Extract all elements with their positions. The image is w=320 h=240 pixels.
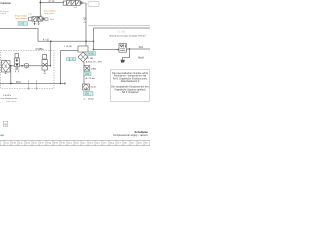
- wire vertical from V2: [85, 3, 87, 41]
- link box T3: [84, 72, 91, 76]
- svg-text:0.6 MPa: 0.6 MPa: [3, 95, 12, 97]
- junction: [129, 48, 131, 50]
- link box 1V2: [18, 22, 28, 26]
- wire drop from right rail: [94, 28, 120, 50]
- wire service unit: [10, 65, 24, 67]
- wire into unit: [85, 41, 87, 46]
- svg-text:20N4: 20N4: [91, 68, 97, 70]
- svg-text:( 1 V3 ): ( 1 V3 ): [118, 31, 126, 34]
- junction: [93, 41, 95, 43]
- note frame: [111, 70, 150, 102]
- svg-text:3/n2: 3/n2: [139, 47, 144, 49]
- annotation orange note 1: [0, 11, 9, 15]
- svg-text:3 / n2: 3 / n2: [84, 17, 86, 23]
- comment frame rounded: [88, 1, 99, 6]
- svg-text:20.4k: 20.4k: [91, 86, 97, 88]
- svg-text:4 ... 10 bar: 4 ... 10 bar: [84, 97, 95, 100]
- regulator: [15, 54, 20, 73]
- valve V1: [29, 17, 48, 26]
- svg-text:A-20x1.25 - 18.5: A-20x1.25 - 18.5: [86, 60, 103, 63]
- svg-text:1 V2: 1 V2: [19, 24, 24, 26]
- link box T4: [84, 92, 94, 96]
- wire top rail: [40, 2, 64, 4]
- junction: [50, 41, 52, 43]
- svg-text:1V3: 1V3: [85, 74, 90, 76]
- wire riser to generator: [61, 51, 79, 84]
- junction: [85, 41, 87, 43]
- silencer: [120, 60, 125, 63]
- svg-text:6 7f: 6 7f: [40, 142, 44, 144]
- svg-text:1 V 1B1: 1 V 1B1: [86, 58, 95, 60]
- svg-text:lang wartu: lang wartu: [44, 12, 55, 15]
- svg-text:13 d: 13 d: [89, 142, 93, 144]
- svg-text:2 / n2: 2 / n2: [49, 1, 55, 3]
- filter: [2, 61, 10, 74]
- svg-text:Teil 2: Ersatzteil: Teil 2: Ersatzteil: [122, 91, 139, 94]
- svg-text:Datenbankwerk 4: Datenbankwerk 4: [121, 80, 140, 83]
- vacuum gauge: [83, 84, 90, 90]
- svg-text:8 9h: 8 9h: [54, 142, 58, 144]
- svg-text:1V1B1: 1V1B1: [87, 54, 95, 56]
- svg-text:lang dauern: lang dauern: [15, 17, 27, 20]
- section divider line: [88, 25, 150, 27]
- svg-text:lang d: lang d: [0, 13, 7, 15]
- wire upper right rail: [94, 27, 151, 29]
- lubricator: [42, 54, 47, 73]
- wire spine: [83, 62, 85, 84]
- teal dash bottom left: [0, 135, 3, 137]
- svg-text:A - 20 bar: A - 20 bar: [86, 77, 96, 80]
- link boxes row: [67, 58, 76, 61]
- svg-text:2: 2: [41, 15, 42, 17]
- annotation orange note 3: [44, 10, 56, 16]
- svg-text:nach oben: nach oben: [6, 101, 17, 103]
- vacuum filter unit: [78, 46, 88, 62]
- svg-text:3 4c: 3 4c: [19, 142, 23, 144]
- svg-text:1B1: 1B1: [85, 94, 90, 96]
- svg-text:18 i: 18 i: [124, 142, 128, 144]
- svg-text:PNEUMONE: PNEUMONE: [0, 3, 11, 5]
- svg-text:17 h: 17 h: [117, 142, 121, 144]
- svg-text:7 8g: 7 8g: [47, 142, 51, 144]
- svg-text:Einschaltbar: Einschaltbar: [15, 14, 27, 17]
- left note text: [0, 95, 17, 103]
- wire filter down: [11, 66, 13, 84]
- svg-text:20 k: 20 k: [50, 19, 54, 21]
- svg-text:15 f: 15 f: [103, 142, 107, 144]
- gauge: [24, 63, 29, 68]
- wire riser: [49, 41, 51, 66]
- svg-text:Einschaltbar: Einschaltbar: [44, 10, 56, 13]
- vacuum generator VTM: [119, 44, 127, 53]
- wire left horizontal: [0, 29, 38, 42]
- check valve: [84, 66, 90, 71]
- junction corner dot: [93, 49, 95, 51]
- wire lubricator: [24, 65, 50, 67]
- annotation orange note 2: [15, 14, 28, 20]
- svg-text:16 g: 16 g: [110, 142, 114, 144]
- svg-text:Schaltplan: Schaltplan: [134, 130, 148, 134]
- wire right rail out: [127, 48, 151, 50]
- drain stub 2: [36, 80, 38, 90]
- junction: [10, 65, 12, 67]
- junction: [60, 83, 62, 85]
- wire bottom rail P0.6: [0, 83, 65, 85]
- svg-text:20 k: 20 k: [138, 142, 142, 144]
- title block table: [0, 140, 150, 145]
- svg-text:12 c: 12 c: [82, 142, 86, 144]
- wire stub up: [39, 0, 41, 17]
- service unit dashed enclosure: [1, 51, 54, 89]
- svg-text:Abluft: Abluft: [138, 56, 144, 59]
- junction: [21, 65, 23, 67]
- svg-text:4 / n2: 4 / n2: [43, 40, 49, 42]
- wire to silencer: [123, 49, 130, 60]
- svg-text:Kompressed air supply - vacuum: Kompressed air supply - vacuum: [113, 134, 148, 137]
- wire end plug: [64, 82, 66, 84]
- svg-text:zum Kompressor: zum Kompressor: [0, 97, 17, 100]
- svg-text:P0.6: P0.6: [16, 82, 21, 84]
- junction: [10, 83, 12, 85]
- note paragraph: [111, 72, 149, 94]
- junction: [40, 2, 42, 4]
- valve V2: [63, 0, 86, 5]
- drain stub 1: [28, 80, 30, 90]
- junction port dot: [117, 49, 119, 51]
- svg-text:21 l: 21 l: [145, 142, 149, 144]
- marker box M: [3, 121, 8, 126]
- svg-text:Unterdruckerzeuger kompakt VTM: Unterdruckerzeuger kompakt VTM 4V: [109, 34, 146, 37]
- svg-text:1 V1 B2: 1 V1 B2: [64, 46, 73, 48]
- wire main horizontal: [38, 40, 94, 42]
- svg-text:19 j: 19 j: [131, 142, 135, 144]
- svg-text:4 5d: 4 5d: [26, 142, 30, 144]
- svg-text:0.5MPa: 0.5MPa: [36, 49, 45, 51]
- junction: [50, 65, 52, 67]
- link box 1V1B1: [86, 52, 96, 56]
